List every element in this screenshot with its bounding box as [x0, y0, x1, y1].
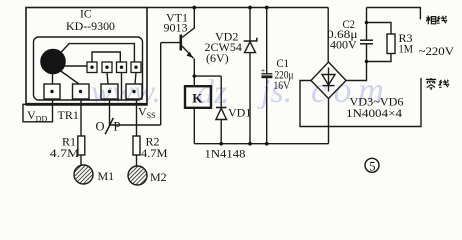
wire K to bottom rail: [193, 108, 195, 144]
pad square D: [131, 62, 141, 73]
node emitter/K/VD1: [193, 74, 197, 78]
wire C1 to bottom rail: [266, 78, 268, 144]
node VD1 bottom: [219, 142, 223, 146]
wire bracket pads A-C: [92, 52, 120, 62]
circled 5 figure number: [365, 158, 379, 173]
VDD pin label box: [23, 104, 53, 122]
zener VD2 branch wire: [249, 8, 251, 42]
pad square B: [102, 62, 112, 73]
svg-text:KD--9300: KD--9300: [66, 21, 115, 33]
wire R3 top: [367, 23, 392, 35]
svg-text:9013: 9013: [164, 21, 188, 35]
resistor R3: [387, 34, 395, 54]
capacitor C2 plate bottom: [360, 43, 373, 45]
svg-text:400V: 400V: [330, 38, 357, 52]
node R3 bottom junction: [365, 60, 369, 64]
svg-text:VD1: VD1: [228, 106, 251, 120]
transistor VT1 emitter: [182, 46, 194, 58]
node VD2 junction top: [248, 6, 252, 10]
bridge inner diode bar: [323, 85, 335, 87]
pin square S1: [44, 84, 60, 99]
pin square S4: [126, 84, 142, 99]
wire O/P pin to base: [110, 99, 161, 125]
resistor R1: [78, 136, 85, 155]
svg-text:1N4004×4: 1N4004×4: [346, 106, 402, 120]
IC die box: [34, 37, 143, 100]
wire base horizontal: [161, 42, 180, 44]
microphone M2: [128, 166, 147, 185]
wire VDD pin: [52, 99, 54, 104]
pin square S2: [73, 84, 90, 99]
transistor VT1 collector wire: [182, 8, 194, 38]
transistor VT1 emitter arrow: [186, 52, 192, 58]
zener VD2 cathode bar: [244, 38, 257, 41]
capacitor C2 plate top: [360, 39, 373, 41]
svg-text:5: 5: [369, 159, 375, 173]
wire TR1 pin to R1: [80, 99, 82, 136]
IC die black disc: [40, 49, 66, 75]
microphone M1: [74, 165, 93, 184]
bridge VD3-VD6 diamond: [311, 62, 346, 99]
wire base riser: [160, 43, 162, 125]
relay K box: [185, 86, 211, 108]
wire pad D to S4: [135, 73, 136, 85]
node collector junction: [192, 6, 196, 10]
wire bridge bottom to rail: [328, 99, 330, 144]
wire disc to S2: [60, 71, 79, 85]
bridge inner diode triangle: [322, 75, 335, 86]
watermark: [91, 70, 390, 111]
diode VD1 branch wire: [220, 76, 222, 107]
svg-text:4.7M: 4.7M: [141, 146, 168, 160]
svg-text:16V: 16V: [274, 78, 291, 92]
svg-text:P: P: [114, 120, 121, 134]
wire bridge right to C2 branch: [346, 44, 367, 80]
wire pad B to S3: [107, 73, 108, 85]
diode VD1 cathode bar: [216, 107, 227, 109]
svg-text:K: K: [192, 90, 203, 105]
wire R1 to M1: [80, 155, 82, 166]
wire into relay K: [193, 76, 195, 86]
capacitor C1 plate -: [261, 75, 272, 78]
label phase line (xiang xian): [426, 16, 447, 25]
pad dots top row: [90, 66, 137, 69]
pad square A: [87, 62, 97, 73]
svg-text:1M: 1M: [399, 42, 414, 56]
transistor VT1 base bar: [180, 35, 183, 51]
wire disc to S1: [52, 73, 54, 84]
svg-text:4.7M: 4.7M: [50, 146, 80, 160]
node C1 bottom: [265, 142, 269, 146]
wire R2 to M2: [136, 155, 138, 166]
wire top rail to bridge: [327, 8, 329, 63]
resistor R2: [133, 136, 140, 155]
svg-text:(6V): (6V): [206, 51, 229, 65]
IC U1 outer box: [26, 8, 147, 105]
wire VD1 to bottom rail: [220, 120, 222, 144]
pin square S3: [101, 84, 118, 99]
svg-text:M1: M1: [98, 169, 115, 183]
pad square C: [117, 62, 127, 73]
svg-text:+: +: [261, 66, 266, 75]
wire R3 bottom: [367, 54, 392, 62]
wire pad C down: [121, 73, 123, 101]
svg-text:O: O: [96, 120, 105, 134]
capacitor C1 wire top: [266, 8, 268, 74]
live rail to terminal: [367, 8, 421, 20]
zener VD2 triangle: [245, 42, 256, 53]
svg-text:IC: IC: [80, 9, 92, 21]
svg-text:M2: M2: [150, 170, 167, 184]
IC U1 outer box thick bottom edge: [26, 103, 148, 106]
label neutral line (ling xian): [426, 78, 449, 90]
svg-text:1N4148: 1N4148: [205, 147, 246, 161]
wire to VD1 branch: [194, 75, 221, 77]
node R3 top junction: [365, 21, 369, 25]
svg-text:TR1: TR1: [58, 108, 79, 122]
capacitor C1 plate +: [261, 73, 272, 75]
pin dots bottom row: [50, 90, 135, 93]
wire bridge left to neutral terminal: [300, 78, 421, 127]
diode VD1 triangle: [216, 108, 227, 119]
wire disc to pad A: [64, 65, 87, 67]
wire emitter down: [193, 59, 195, 77]
wire C2 up to live rail: [366, 8, 368, 40]
bridge inner diode wire: [328, 68, 330, 92]
node C1 junction top: [265, 6, 269, 10]
top rail: [147, 7, 328, 9]
svg-text:VDD: VDD: [27, 108, 47, 124]
bottom rail: [194, 143, 328, 145]
wire VSS pin to R2: [136, 99, 138, 136]
wire VD2 to bottom rail: [249, 53, 251, 144]
svg-text:~220V: ~220V: [419, 44, 455, 58]
wire disc to pad D: [60, 44, 134, 62]
node VD2 bottom: [248, 142, 252, 146]
